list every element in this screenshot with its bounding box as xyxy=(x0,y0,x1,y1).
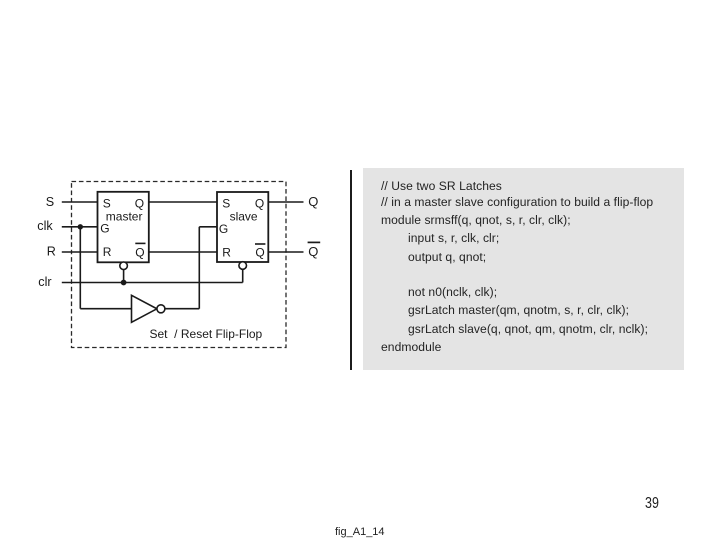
wire master Qbar to slave R xyxy=(149,251,217,253)
wire master Q to slave S xyxy=(149,201,217,203)
svg-text:clr: clr xyxy=(38,275,51,289)
wire slave Q to output Q xyxy=(268,201,303,203)
svg-text:R: R xyxy=(103,245,112,259)
latch U2 slave box xyxy=(217,192,268,262)
code panel gray background xyxy=(363,168,684,370)
svg-text:G: G xyxy=(219,222,228,236)
svg-text:slave: slave xyxy=(230,210,258,224)
vertical separator line xyxy=(350,170,352,370)
code line 8 xyxy=(408,322,648,336)
code line 6 xyxy=(408,285,497,299)
code line 4 xyxy=(408,231,499,245)
code line 7 xyxy=(408,303,629,317)
wire to inverter input xyxy=(80,308,131,310)
master clr bubble xyxy=(120,262,128,270)
figure label fig_A1_14 xyxy=(335,526,385,538)
svg-text:G: G xyxy=(100,222,109,236)
junction clr node xyxy=(121,280,127,286)
svg-text:Q: Q xyxy=(255,246,264,260)
dashed enclosure box xyxy=(72,182,287,348)
inverter U3 bubble xyxy=(157,305,165,313)
code line 2 xyxy=(381,195,653,209)
wire inverter output xyxy=(165,308,199,310)
svg-text:R: R xyxy=(222,245,231,259)
svg-text:Q: Q xyxy=(255,196,264,210)
wire feedback to slave G xyxy=(199,226,217,228)
overbar Qbar slave xyxy=(255,243,265,245)
svg-text:Q: Q xyxy=(308,194,318,209)
wire slave clr stub xyxy=(242,269,244,282)
inverter U3 triangle xyxy=(132,295,157,322)
code line 3 xyxy=(381,213,571,227)
wire clr input xyxy=(62,282,243,284)
wire slave Qbar to output Qbar xyxy=(268,251,303,253)
slave clr bubble xyxy=(239,262,247,270)
code line 1 xyxy=(381,179,502,193)
wire S input xyxy=(62,201,98,203)
code line 9 xyxy=(381,340,441,354)
overbar Qbar master xyxy=(135,242,145,244)
wire clk input xyxy=(62,226,98,228)
wire master clr stub xyxy=(123,270,125,283)
svg-text:Set / Reset Flip-Flop: Set / Reset Flip-Flop xyxy=(150,327,263,341)
svg-text:Q: Q xyxy=(135,196,144,210)
svg-text:Q: Q xyxy=(308,244,318,259)
wire feedback vertical xyxy=(198,227,200,309)
svg-text:S: S xyxy=(103,196,111,210)
junction clk node xyxy=(78,224,83,229)
overbar output Qbar xyxy=(308,241,321,243)
svg-text:R: R xyxy=(47,245,56,259)
svg-text:S: S xyxy=(46,195,54,209)
page number 39 xyxy=(645,495,659,513)
latch U1 master box xyxy=(98,192,149,262)
svg-text:Q: Q xyxy=(135,246,144,260)
wire clk vertical drop xyxy=(79,227,81,309)
svg-text:clk: clk xyxy=(37,219,53,233)
code line 5 xyxy=(408,250,486,264)
wire R input xyxy=(62,251,98,253)
svg-text:S: S xyxy=(222,196,230,210)
svg-text:master: master xyxy=(106,210,143,224)
